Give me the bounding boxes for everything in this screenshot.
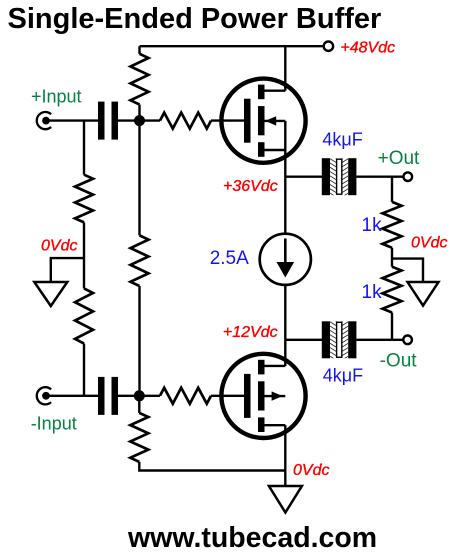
wire R3 to Q1 gate xyxy=(211,119,244,121)
label title xyxy=(8,3,382,35)
resistor R4 lower input load xyxy=(75,288,93,343)
wire rail to R1 xyxy=(138,46,140,54)
svg-text:2.5A: 2.5A xyxy=(210,248,249,269)
label 4kμF top xyxy=(322,130,362,150)
resistor R6 1k upper xyxy=(383,202,402,248)
capacitor C3 output 4kuF xyxy=(322,154,357,201)
wire Q2 source to ground xyxy=(284,425,286,486)
mosfet Q1 top N-channel xyxy=(221,79,305,163)
wire -Input to C2 xyxy=(46,395,99,397)
wire node A to R3 xyxy=(140,119,161,121)
wire C4 to -Out xyxy=(356,339,403,341)
resistor R8 gate stopper bottom xyxy=(160,388,211,404)
label www.tubecad.com xyxy=(127,522,377,554)
input jack +Input xyxy=(37,112,51,129)
label +12Vdc xyxy=(223,324,278,341)
label 0Vdc bottom xyxy=(293,462,329,479)
wire +Input to C1 xyxy=(46,119,99,121)
wire C3 to +Out xyxy=(356,175,403,177)
node A junction dot xyxy=(134,115,145,126)
capacitor C2 plate left xyxy=(98,377,105,415)
wire R9 to ground rail xyxy=(139,462,285,471)
wire right tap to ground xyxy=(392,259,423,282)
label 0Vdc left xyxy=(41,237,77,254)
svg-text:www.tubecad.com: www.tubecad.com xyxy=(127,522,377,553)
wire node B to R8 xyxy=(139,395,160,397)
svg-text:+12Vdc: +12Vdc xyxy=(223,324,278,341)
svg-text:0Vdc: 0Vdc xyxy=(411,235,447,252)
capacitor C1 plate left xyxy=(98,102,105,140)
label 2.5A xyxy=(210,248,249,269)
wire R1 to node A xyxy=(138,105,140,121)
label 4kμF bottom xyxy=(323,365,363,385)
wire R8 to Q2 gate xyxy=(211,395,244,397)
label 0Vdc right xyxy=(411,235,447,252)
wire R5 to node B xyxy=(138,286,140,396)
svg-text:1k: 1k xyxy=(362,215,383,236)
wire R4 to -Input row xyxy=(83,344,85,396)
wire tap to R4 xyxy=(83,258,85,288)
wire +36V node to C3 xyxy=(285,175,322,177)
capacitor C4 output 4kuF xyxy=(322,318,357,365)
label 1k upper xyxy=(362,215,383,236)
svg-text:0Vdc: 0Vdc xyxy=(293,462,329,479)
input jack -Input xyxy=(37,387,51,404)
resistor R2 upper input load xyxy=(75,175,93,223)
power terminal +48Vdc xyxy=(324,42,333,51)
current source I1 circle xyxy=(260,234,311,285)
wire C2 to node B xyxy=(118,395,139,397)
ground symbol right xyxy=(408,282,439,306)
wire R6 to right tap xyxy=(391,248,393,259)
label +36Vdc xyxy=(223,178,278,195)
ground symbol left xyxy=(34,282,67,306)
label 1k lower xyxy=(362,282,383,303)
capacitor C2 plate right xyxy=(112,377,119,415)
svg-text:1k: 1k xyxy=(362,282,383,303)
resistor R9 to ground rail xyxy=(130,413,148,462)
wire +Out to R6 xyxy=(391,177,393,202)
wire node A to R5 xyxy=(138,121,140,236)
wire C1 to node A xyxy=(118,119,140,121)
wire node B to R9 xyxy=(138,396,140,413)
label +Out xyxy=(378,148,420,169)
svg-text:+36Vdc: +36Vdc xyxy=(223,178,278,195)
label -Input xyxy=(31,414,77,434)
svg-text:+Out: +Out xyxy=(378,148,420,169)
wire I1 to Q2 drain xyxy=(284,285,286,366)
capacitor C1 plate right xyxy=(112,102,119,140)
svg-text:-Out: -Out xyxy=(380,351,418,372)
wire top supply rail xyxy=(140,45,323,47)
node B junction dot xyxy=(134,390,145,401)
wire R7 to -Out row xyxy=(391,313,393,340)
wire Q1 source to bus xyxy=(284,121,286,234)
wire R2 to ground tap xyxy=(83,222,85,258)
wire ground tap left xyxy=(51,258,84,282)
label +48Vdc xyxy=(340,40,395,57)
mosfet Q2 bottom P-channel xyxy=(221,354,305,438)
ground symbol bottom xyxy=(269,486,302,513)
svg-text:4kμF: 4kμF xyxy=(322,130,362,150)
svg-text:0Vdc: 0Vdc xyxy=(41,237,77,254)
current source I1 arrow xyxy=(277,239,295,278)
svg-text:+Input: +Input xyxy=(31,86,82,106)
wire +12V node to C4 xyxy=(285,339,322,341)
svg-text:4kμF: 4kμF xyxy=(323,365,363,385)
svg-text:Single-Ended Power Buffer: Single-Ended Power Buffer xyxy=(8,3,382,35)
output terminal +Out xyxy=(404,172,413,181)
svg-text:-Input: -Input xyxy=(31,414,77,434)
wire tap to R7 xyxy=(391,259,393,267)
label -Out xyxy=(380,351,418,372)
output terminal -Out xyxy=(403,336,412,345)
resistor R1 pull-up xyxy=(131,54,149,105)
resistor R7 1k lower xyxy=(383,267,402,313)
svg-text:+48Vdc: +48Vdc xyxy=(340,40,395,57)
wire +Input row to R2 xyxy=(83,121,85,175)
label +Input xyxy=(31,86,82,106)
resistor R5 bias divider xyxy=(131,235,149,286)
resistor R3 gate stopper top xyxy=(160,113,211,129)
wire bus to Q1 drain xyxy=(284,46,286,90)
